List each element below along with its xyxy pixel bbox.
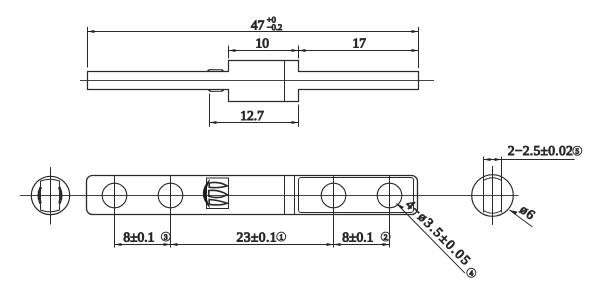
dim 10 extension lines (228, 46, 230, 59)
left end view barrel (41, 179, 60, 212)
dim 10 arrows (229, 49, 299, 52)
dia 6 leader (510, 210, 533, 227)
right end view slot top arc (484, 178, 502, 181)
bottom view seam line 2 (294, 176, 296, 215)
hole 3 (321, 183, 346, 208)
left end view crimp mark right (59, 187, 61, 204)
dim 47 extension line right (418, 27, 420, 68)
left end view circle (31, 176, 69, 214)
crown spring outline box (207, 178, 229, 209)
right end view slot right side + extension (501, 157, 503, 213)
dim 8 (3) line (115, 244, 171, 246)
svg-text:3: 3 (164, 232, 168, 241)
dim 10 line (229, 50, 299, 52)
svg-text:8±0.1: 8±0.1 (123, 230, 154, 245)
top view centerline (80, 80, 434, 82)
bottom view outer plate outline (87, 176, 418, 215)
svg-text:12.7: 12.7 (240, 108, 264, 123)
svg-text:4−ø3.5±0.05: 4−ø3.5±0.05 (403, 197, 475, 269)
hole 4 centerline (389, 176, 391, 248)
left end view crimp mark left (39, 187, 41, 204)
right end view slot left side + extension (483, 157, 485, 213)
svg-text:8±0.1: 8±0.1 (342, 230, 373, 245)
dim 12.7 extension lines (209, 94, 211, 128)
crown spring top leaf (209, 182, 227, 187)
svg-text:23±0.1: 23±0.1 (237, 230, 277, 245)
dim 47 arrows (88, 30, 419, 33)
hole 1 (102, 183, 127, 208)
holes leader 4-dia3.5 (397, 204, 466, 274)
top view internal seam line (284, 61, 286, 102)
dim 2-2.5 line (484, 159, 575, 161)
svg-text:10: 10 (256, 35, 270, 50)
hole 2 centerline (170, 176, 172, 248)
svg-text:2−2.5±0.02: 2−2.5±0.02 (508, 143, 573, 158)
dim 47 extension line left (87, 27, 89, 68)
crown spring middle leaf (209, 190, 228, 197)
svg-text:47: 47 (251, 17, 265, 32)
circled 1 (277, 232, 286, 241)
circled 3 (161, 232, 170, 241)
dim 8 (2) line (334, 244, 390, 246)
circled 5 (573, 146, 582, 155)
dim 47 line (88, 31, 419, 33)
circled 4 (467, 268, 476, 277)
dim 23 (1) line (171, 244, 334, 246)
crown spring left crescent (203, 180, 209, 208)
svg-text:1: 1 (279, 232, 283, 241)
bottom view right strip inner outline (299, 178, 414, 213)
dim 17 arrows (299, 49, 419, 52)
right end view circle (472, 175, 514, 217)
top view upper tab end marks (208, 70, 224, 71)
circled 2 (381, 232, 390, 241)
dim 12.7 line (210, 122, 299, 124)
top view lower tab (208, 90, 223, 92)
hole 3 centerline (333, 176, 335, 248)
hole 2 (158, 183, 183, 208)
svg-text:4: 4 (469, 269, 473, 278)
left end view vertical centerline (50, 167, 52, 225)
right end view slot bottom arc (484, 211, 502, 214)
svg-text:ø6: ø6 (517, 202, 538, 223)
svg-text:2: 2 (384, 232, 388, 241)
dim 12.7 arrows (210, 121, 299, 124)
bottom view seam line 1 (284, 176, 286, 215)
dim 2-2.5 arrows (484, 158, 502, 161)
top view bar outline (88, 61, 419, 102)
dim 17 line (299, 50, 419, 52)
svg-text:17: 17 (352, 35, 366, 50)
hole 1 centerline (114, 176, 116, 248)
hole 4 (377, 183, 402, 208)
svg-text:5: 5 (575, 147, 579, 156)
bottom view main centerline (20, 195, 519, 197)
top view lower tab end marks (209, 90, 224, 91)
right end view vertical centerline (492, 166, 494, 225)
svg-text:−0.2: −0.2 (267, 22, 282, 32)
crown spring bottom leaf (209, 200, 227, 205)
top view upper tab (207, 70, 223, 72)
